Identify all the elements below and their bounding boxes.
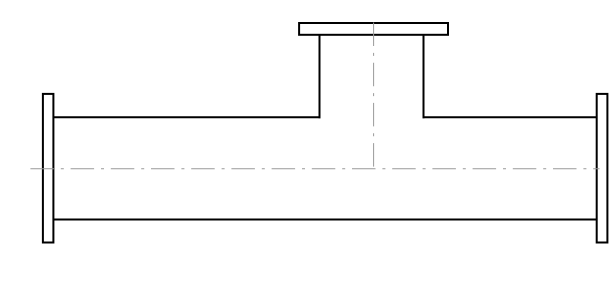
horizontal centerline	[30, 168, 599, 170]
top flange	[299, 23, 448, 35]
branch left wall	[319, 35, 321, 119]
branch right wall	[423, 35, 425, 119]
pipe top wall left segment	[53, 116, 320, 118]
right flange	[597, 94, 608, 243]
vertical centerline	[373, 23, 375, 169]
pipe top wall right segment	[423, 116, 597, 118]
left flange	[43, 94, 54, 243]
pipe bottom wall	[53, 219, 596, 221]
